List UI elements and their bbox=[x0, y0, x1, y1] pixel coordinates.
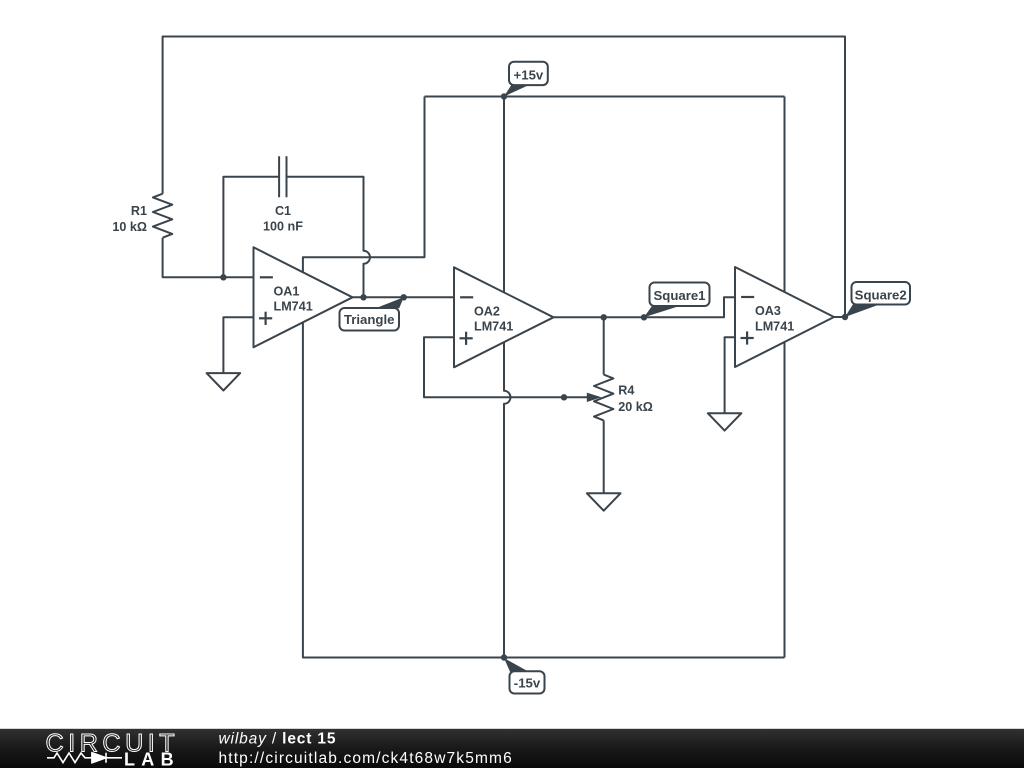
svg-text:LM741: LM741 bbox=[474, 320, 513, 334]
node +15v junction bbox=[501, 93, 507, 99]
svg-text:LM741: LM741 bbox=[274, 300, 313, 314]
junction node R1/C1/OA1 input bbox=[220, 274, 226, 280]
op-amp OA3 minus input sign bbox=[741, 296, 754, 298]
junction node C1/OA1 output bbox=[360, 294, 366, 300]
net flag Square1 bbox=[644, 283, 710, 318]
ground (OA3 non-inverting) bbox=[708, 413, 742, 430]
wire R4 bottom to ground bbox=[603, 420, 605, 493]
svg-text:+15v: +15v bbox=[514, 68, 544, 83]
ground (OA1 non-inverting) bbox=[207, 373, 241, 390]
resistor R1 bbox=[153, 194, 172, 238]
wire +15v rail bbox=[425, 96, 785, 98]
op-amp OA2 minus input sign bbox=[460, 296, 473, 298]
wire OA1 non-inverting input to ground bbox=[223, 317, 253, 373]
node Triangle junction bbox=[401, 294, 407, 300]
svg-text:100 nF: 100 nF bbox=[263, 220, 303, 234]
wire OA3 V+ stub bbox=[784, 97, 786, 293]
wire OA2 output to OA3 inverting input bbox=[554, 297, 736, 317]
svg-text:Triangle: Triangle bbox=[344, 312, 395, 327]
R4 wiper arrowhead bbox=[587, 393, 602, 402]
wire feedback loop from Square2 node up across top to R1 bbox=[163, 37, 845, 318]
wire OA3 non-inverting input to ground bbox=[725, 337, 735, 413]
svg-text:R4: R4 bbox=[618, 384, 634, 398]
op-amp OA3 bbox=[735, 267, 834, 367]
wire OA2 non-inverting input to R4 wiper bbox=[424, 337, 589, 397]
op-amp OA1 bbox=[254, 247, 353, 347]
node -15v junction bbox=[501, 654, 507, 660]
wire OA2 V- stub with hop bbox=[504, 342, 511, 657]
op-amp OA1 minus input sign bbox=[260, 276, 273, 278]
op-amp OA2 bbox=[454, 267, 554, 367]
node Square2 junction bbox=[842, 314, 848, 320]
svg-text:10 kΩ: 10 kΩ bbox=[112, 220, 147, 234]
svg-text:OA2: OA2 bbox=[474, 304, 500, 318]
net flag Triangle bbox=[340, 297, 404, 330]
CircuitLab logo resistor-diode glyph bbox=[47, 753, 122, 763]
svg-text:Square2: Square2 bbox=[855, 287, 907, 302]
capacitor C1 bbox=[279, 156, 286, 197]
svg-text:20 kΩ: 20 kΩ bbox=[618, 400, 653, 414]
svg-text:wilbay / lect 15: wilbay / lect 15 bbox=[219, 730, 337, 747]
resistor R4 bbox=[594, 375, 613, 421]
svg-text:OA3: OA3 bbox=[755, 304, 781, 318]
net flag +15v bbox=[504, 62, 548, 97]
wire OA3 V- stub bbox=[784, 342, 786, 658]
net flag -15v bbox=[504, 658, 545, 694]
wire OA1 output to OA2 inverting input bbox=[353, 296, 455, 298]
wire R1 bottom to OA1 inverting input bbox=[163, 238, 254, 278]
svg-text:R1: R1 bbox=[131, 204, 147, 218]
junction node OA2 output / R4 bbox=[601, 314, 607, 320]
svg-text:OA1: OA1 bbox=[274, 284, 300, 298]
wire node A up to C1 left plate bbox=[223, 177, 279, 277]
wire Square1 node down to R4 bbox=[603, 317, 605, 374]
wire OA2 V+ stub bbox=[503, 97, 505, 293]
svg-text:LAB: LAB bbox=[124, 749, 180, 768]
svg-text:Square1: Square1 bbox=[653, 288, 705, 303]
footer bar bbox=[0, 729, 1024, 768]
node Square1 junction bbox=[641, 314, 647, 320]
ground (R4) bbox=[587, 493, 621, 510]
svg-text:LM741: LM741 bbox=[755, 319, 794, 333]
op-amp OA2 plus input sign bbox=[460, 337, 473, 339]
svg-text:http://circuitlab.com/ck4t68w7: http://circuitlab.com/ck4t68w7k5mm6 bbox=[219, 750, 513, 767]
svg-text:C1: C1 bbox=[275, 204, 291, 218]
wire OA1 V+ pin to +15v rail bbox=[303, 97, 425, 273]
op-amp OA1 plus input sign bbox=[259, 317, 272, 319]
svg-text:-15v: -15v bbox=[514, 676, 541, 691]
wire OA3 output to Square2 node bbox=[834, 316, 845, 318]
wire C1 right plate to OA1 output with hop over V+ wire bbox=[287, 177, 370, 297]
wire OA1 V- stub and -15v bottom rail bbox=[303, 322, 785, 657]
junction node R4 wiper wire bbox=[561, 394, 567, 400]
op-amp OA3 plus input sign bbox=[741, 337, 754, 339]
net flag Square2 bbox=[845, 282, 910, 317]
